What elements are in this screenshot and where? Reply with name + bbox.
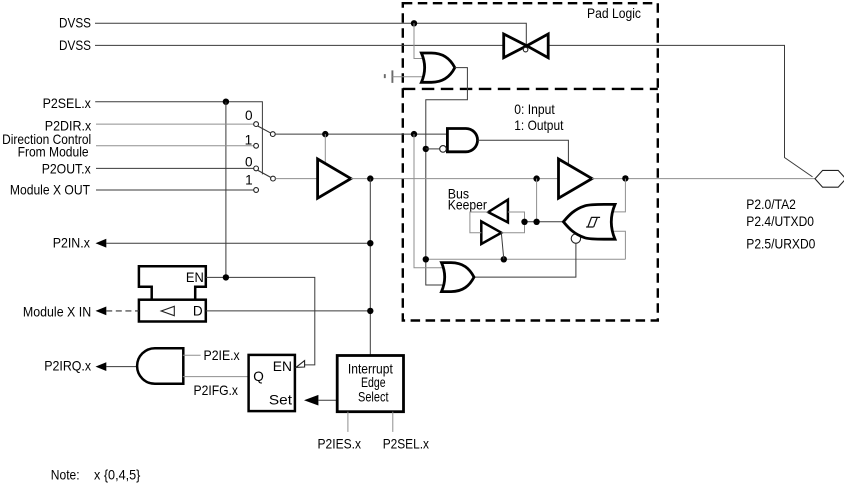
svg-text:P2.4/UTXD0: P2.4/UTXD0	[746, 214, 814, 229]
wire U1 output	[426, 68, 468, 285]
svg-text:P2IN.x: P2IN.x	[53, 235, 90, 250]
Pad Logic inner dashed divider	[403, 88, 658, 90]
wire mux1 output	[275, 133, 447, 135]
wire bus keeper enable line	[426, 258, 626, 260]
arrow P2IRQ.x	[96, 362, 107, 371]
mux2 input terminal 0	[254, 166, 259, 171]
wire direction control from module	[96, 145, 254, 147]
mux1 input terminal 1	[254, 143, 259, 148]
svg-text:Pad Logic: Pad Logic	[587, 6, 641, 21]
wire P2IES pin	[347, 412, 349, 432]
buffer U2	[318, 159, 351, 198]
wire Module X IN dashed	[106, 310, 139, 312]
wire DVSS2 left	[95, 44, 504, 46]
wire P2SEL pin	[392, 412, 394, 432]
svg-text:P2IRQ.x: P2IRQ.x	[44, 359, 91, 374]
wire U3 output to driver enable	[478, 140, 569, 165]
edge wedge at EN	[296, 361, 305, 368]
Pad Logic dashed box	[403, 3, 658, 320]
input latch D section	[139, 300, 206, 322]
svg-text:P2IFG.x: P2IFG.x	[194, 383, 239, 398]
node keeper diagonal junction	[501, 256, 507, 262]
svg-text:EN: EN	[186, 270, 204, 285]
bus keeper buffer B2 (points right)	[481, 221, 501, 244]
wire ground tap to OR U1	[392, 76, 424, 78]
svg-text:P2DIR.x: P2DIR.x	[45, 118, 92, 133]
svg-text:Q: Q	[253, 369, 264, 384]
arrow Set input	[304, 395, 318, 406]
svg-text:1: 1	[245, 133, 253, 148]
bubble of U3 input	[440, 146, 447, 153]
Interrupt Edge Select box	[337, 356, 403, 412]
mux2 arm	[258, 170, 271, 177]
mux2 common terminal	[271, 176, 276, 181]
svg-text:Set: Set	[269, 393, 292, 408]
svg-text:P2OUT.x: P2OUT.x	[42, 161, 91, 176]
svg-text:P2SEL.x: P2SEL.x	[383, 437, 429, 452]
wire keeper loop right	[501, 212, 524, 233]
bubble of U6	[571, 234, 580, 243]
or-gate U1	[421, 53, 454, 82]
wire pad line right	[592, 178, 815, 180]
interrupt flag latch box	[249, 355, 295, 411]
node keeper enable junction	[423, 256, 429, 262]
svg-text:x {0,4,5}: x {0,4,5}	[94, 467, 141, 482]
svg-text:From Module: From Module	[18, 145, 89, 160]
arrow Module X IN	[96, 307, 107, 316]
input latch EN section	[139, 266, 206, 300]
svg-text:P2.0/TA2: P2.0/TA2	[746, 197, 796, 212]
clock triangle in latch	[161, 306, 174, 315]
wire EN to edge-select net	[206, 277, 315, 365]
schmitt trigger U6 (left pointing)	[563, 204, 615, 239]
pad hexagon	[815, 170, 844, 187]
hysteresis symbol	[586, 217, 600, 227]
and-gate U7 (points left)	[137, 348, 183, 384]
node D junction	[367, 308, 373, 314]
wire schmitt output	[525, 221, 564, 223]
wire P2SEL.x	[95, 102, 262, 175]
transmission gate (analog switch)	[504, 34, 527, 58]
svg-text:EN: EN	[273, 359, 292, 374]
mux1 input terminal 0	[254, 122, 259, 127]
svg-text:1: Output: 1: Output	[514, 118, 563, 133]
driver U4	[559, 159, 593, 198]
mux2 input terminal 1	[254, 188, 259, 193]
node schmitt out junction	[533, 219, 539, 225]
svg-text:Module X OUT: Module X OUT	[10, 182, 90, 197]
svg-text:DVSS: DVSS	[59, 16, 91, 31]
svg-text:1: 1	[245, 173, 253, 188]
wire mux2 out to buffer	[275, 178, 317, 180]
wire D input	[206, 310, 370, 312]
node P2SEL junction	[223, 99, 229, 105]
wire U5 output to U6 bubble	[474, 243, 576, 277]
bus keeper buffer B1 (points left)	[488, 200, 508, 223]
node U3 bubble junction	[423, 146, 429, 152]
wire Module X OUT	[96, 189, 254, 191]
wire P2SEL to EN latch	[225, 102, 227, 278]
wire DVSS1 branch to OR U1	[414, 23, 424, 58]
mux1 common terminal	[270, 132, 275, 137]
svg-text:Note:: Note:	[51, 467, 80, 482]
mux1 arm	[258, 126, 271, 133]
and-gate U3	[447, 129, 477, 152]
ground tap symbol	[385, 70, 393, 83]
svg-text:P2.5/URXD0: P2.5/URXD0	[746, 237, 815, 252]
wire schmitt lower input to keeper line	[614, 231, 626, 259]
wire Set from IES	[318, 399, 337, 401]
wire P2IE.x	[183, 354, 201, 356]
wire P2IN.x	[106, 242, 370, 244]
svg-text:Interrupt: Interrupt	[348, 361, 393, 376]
wire pad line left	[351, 178, 559, 180]
svg-text:P2SEL.x: P2SEL.x	[43, 96, 91, 111]
node P2IN junction	[367, 240, 373, 246]
node keeper loop junction	[521, 219, 527, 225]
wire P2OUT.x	[96, 167, 254, 169]
svg-text:Edge: Edge	[361, 375, 386, 390]
wire P2IRQ.x	[106, 366, 137, 368]
wire to U3 bubble	[426, 148, 440, 150]
wire pad net vertical	[369, 179, 371, 356]
node pad schmitt junction	[622, 175, 628, 181]
svg-text:0: 0	[245, 108, 253, 123]
svg-text:0: 0	[245, 154, 253, 169]
node mux1 out junction	[411, 131, 417, 137]
node enable branch	[322, 131, 328, 137]
wire DVSS2 right to pad	[548, 45, 812, 177]
bubble of transmission gate	[523, 47, 528, 52]
wire keeper vertical	[536, 179, 538, 222]
node buffer output junction	[367, 175, 373, 181]
wire enable stub to buffer	[324, 134, 326, 165]
wire P2IFG.x	[183, 376, 249, 378]
svg-text:DVSS: DVSS	[59, 38, 91, 53]
wire keeper diagonal	[501, 233, 503, 259]
svg-text:P2IE.x: P2IE.x	[204, 348, 240, 363]
or-gate U5 (bottom)	[442, 263, 475, 292]
wire DVSS1	[95, 23, 526, 45]
node pad keeper junction	[533, 175, 539, 181]
svg-text:Module X IN: Module X IN	[23, 304, 91, 319]
node DVSS1 junction	[411, 20, 417, 26]
svg-text:D: D	[193, 304, 203, 319]
node EN junction	[223, 274, 229, 280]
wire mux1 out to OR U5 top input	[414, 134, 444, 268]
svg-text:Select: Select	[358, 389, 389, 404]
svg-text:0: Input: 0: Input	[514, 102, 555, 117]
wire pad to schmitt top input	[614, 179, 626, 212]
wire P2DIR.x	[96, 123, 254, 125]
svg-text:Keeper: Keeper	[448, 198, 488, 213]
arrow P2IN.x	[96, 239, 107, 248]
wire keeper loop left	[470, 212, 488, 233]
svg-text:P2IES.x: P2IES.x	[318, 437, 362, 452]
